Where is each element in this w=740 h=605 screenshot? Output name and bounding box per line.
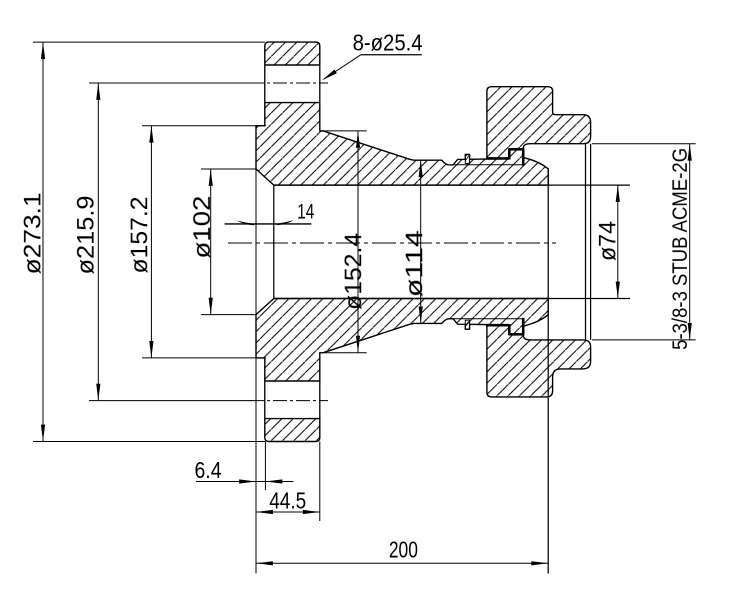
thread tooth rect lower [466,321,470,327]
dimension ø273.1 [19,42,265,441]
nut bore silhouette verticals at right opening [586,144,591,340]
union nut upper section (hatched) [487,87,591,159]
dimension ø74 [594,185,621,298]
svg-text:ø215.9: ø215.9 [73,195,100,274]
dimension ø114 (tube OD) [401,160,428,323]
thread tooth rect upper [466,155,470,161]
dimension 5-3/8-3 STUB ACME-2G [592,144,696,350]
bore lines ø74 + extension to dimension [274,185,630,298]
svg-text:ø114: ø114 [401,230,428,297]
bolt hole centerline upper [89,82,328,84]
dimension 44.5 [256,487,320,514]
bottom extension lines [256,169,320,574]
bolt hole lower (white band through flange) [264,381,320,419]
dimension ø152.4 (hub) with extension overhang [320,131,367,353]
dimension ø102 [189,169,256,315]
dimension ø157.2 [126,126,266,358]
stub end face vertical + 200 extension line [547,169,549,574]
dimension 14 with curved arrows [225,200,315,225]
svg-text:ø157.2: ø157.2 [126,196,153,273]
bolt hole upper (white band through flange) [264,65,320,103]
svg-text:6.4: 6.4 [194,457,221,483]
svg-text:200: 200 [389,536,418,562]
svg-text:14: 14 [297,200,314,223]
svg-text:5-3/8-3 STUB ACME-2G: 5-3/8-3 STUB ACME-2G [668,148,692,350]
engaged thread thick lines lower [486,318,523,336]
thread root line upper [453,164,523,166]
dimension 200 [256,536,548,565]
main axis centerline [228,242,556,244]
union nut lower section (hatched) [487,325,591,397]
svg-text:8-ø25.4: 8-ø25.4 [353,29,423,55]
engaged thread thick lines upper [486,148,523,166]
thread root line lower [453,318,523,320]
svg-text:ø273.1: ø273.1 [19,192,46,274]
dimension ø215.9 [73,83,101,401]
svg-text:ø102: ø102 [189,196,216,259]
flange lower body section (hatched) [256,299,548,442]
svg-text:ø74: ø74 [594,221,621,261]
dimension 6.4 [194,457,293,484]
bolt hole centerline lower [89,400,328,402]
svg-text:44.5: 44.5 [269,487,306,513]
bore chamfer transition edge (vertical) [273,185,275,298]
label 8-ø25.4 with leader [322,29,423,80]
flange upper body section (hatched) [256,42,548,185]
